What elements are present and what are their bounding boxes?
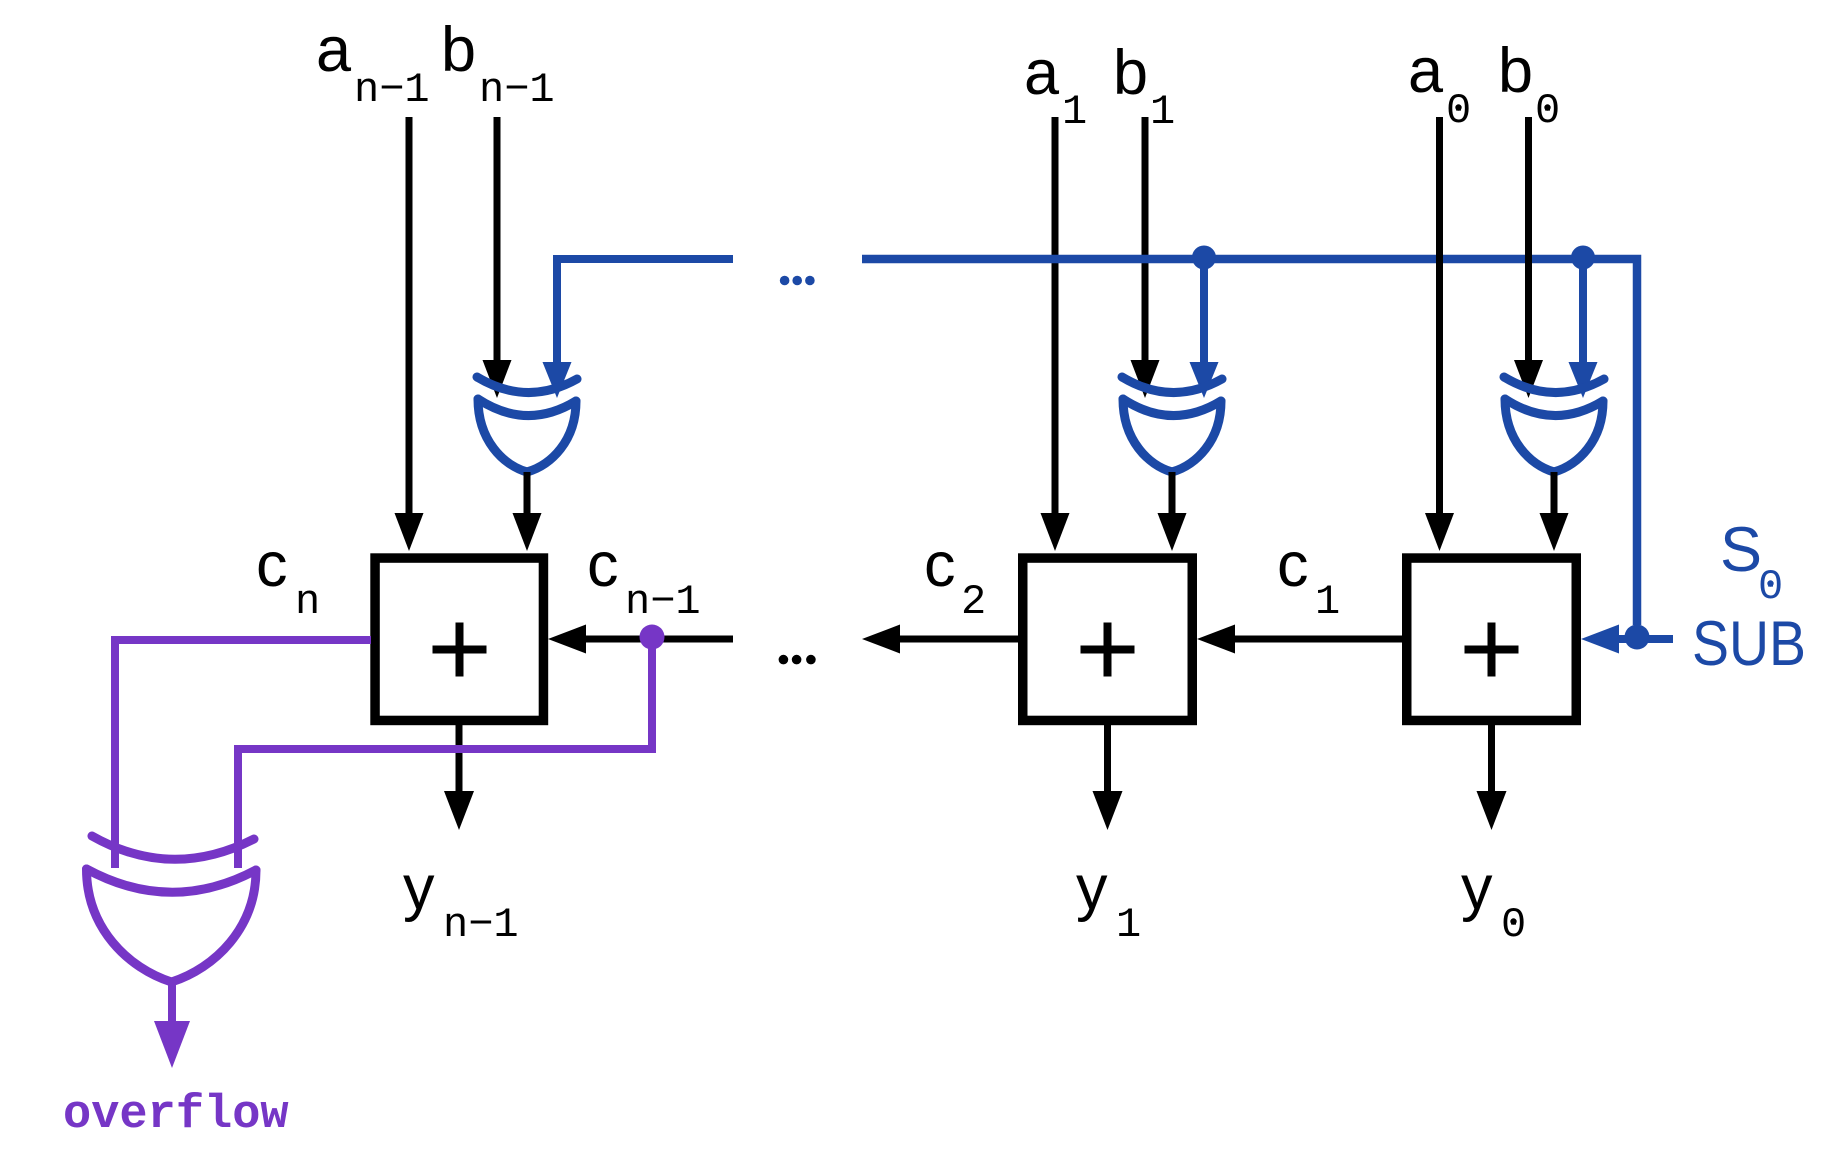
wire sum output FA[n-1] [444, 725, 474, 830]
svg-text:c: c [587, 530, 619, 600]
label SUB [1692, 609, 1806, 679]
wire SUB rail main segment [862, 259, 1637, 625]
svg-text:y: y [1461, 853, 1493, 923]
wire SUB rail left segment to xor B1 [543, 259, 734, 398]
node SUB junction at bit 1 [1192, 246, 1216, 270]
label y[0] [1461, 853, 1526, 949]
svg-text:n−1: n−1 [479, 66, 555, 114]
wire SUB drop to xor B2 [1190, 259, 1219, 398]
plus symbol FA[n-1] [433, 623, 487, 677]
label y[n-1] [403, 853, 519, 949]
svg-text:1: 1 [1150, 88, 1175, 136]
wire SUB drop to xor B3 [1569, 259, 1598, 398]
plus symbol FA1 [1081, 623, 1135, 677]
svg-text:n−1: n−1 [354, 66, 430, 114]
wire carry c[n-1] into FA[n-1] [548, 625, 733, 654]
svg-text:n: n [295, 578, 320, 626]
xor gate B3 [1504, 377, 1604, 472]
svg-text:0: 0 [1501, 901, 1526, 949]
svg-text:b: b [1113, 38, 1148, 108]
wire carry c[1] FA0 to FA1 [1197, 625, 1402, 654]
ellipsis carry chain [779, 655, 816, 665]
svg-text:y: y [1076, 853, 1108, 923]
svg-text:0: 0 [1758, 563, 1783, 611]
svg-text:a: a [316, 15, 352, 85]
wire carry c[2] out of FA1 [862, 625, 1018, 654]
node SUB junction at bit 0 [1571, 246, 1595, 270]
label b[1] [1113, 38, 1175, 136]
svg-text:c: c [256, 530, 288, 600]
svg-text:0: 0 [1446, 87, 1471, 135]
node SUB input junction [1625, 625, 1650, 650]
adder FA0 [1407, 558, 1577, 720]
wire sum output FA1 [1093, 725, 1123, 830]
xor gate B2 [1122, 377, 1222, 472]
svg-text:SUB: SUB [1692, 609, 1806, 679]
label c[n-1] [587, 530, 701, 626]
label c[2] [924, 530, 986, 626]
wire xor B1 output to adder FA[n-1] [513, 472, 542, 551]
adder FA1 [1023, 558, 1193, 720]
wire b[n-1] input [483, 117, 512, 398]
svg-text:b: b [441, 15, 476, 85]
svg-text:1: 1 [1062, 88, 1087, 136]
svg-text:a: a [1408, 36, 1444, 106]
svg-text:b: b [1498, 36, 1533, 106]
wire b[0] input [1514, 117, 1543, 398]
adder FA[n-1] [375, 558, 543, 720]
plus symbol FA0 [1465, 623, 1519, 677]
label overflow [63, 1089, 289, 1142]
svg-text:a: a [1024, 38, 1060, 108]
svg-text:S: S [1720, 515, 1762, 585]
wire b[1] input [1131, 117, 1160, 398]
svg-text:n−1: n−1 [443, 901, 519, 949]
label y[1] [1076, 853, 1141, 949]
wire overflow output [154, 982, 190, 1068]
ellipsis blue rail [780, 276, 815, 286]
svg-text:2: 2 [961, 578, 986, 626]
svg-text:c: c [924, 530, 956, 600]
svg-text:overflow: overflow [63, 1089, 289, 1142]
svg-text:0: 0 [1535, 87, 1560, 135]
wire a[0] input [1425, 117, 1454, 551]
svg-text:n−1: n−1 [625, 578, 701, 626]
label c[n] [256, 530, 320, 626]
svg-text:c: c [1277, 530, 1309, 600]
node c[n-1] junction [640, 625, 665, 650]
label c[1] [1277, 530, 1340, 626]
wire c[n] to overflow xor [115, 640, 371, 868]
wire a[1] input [1041, 117, 1070, 551]
svg-text:1: 1 [1315, 578, 1340, 626]
xor gate B1 [477, 377, 577, 472]
label a[1] [1024, 38, 1087, 136]
label b[n-1] [441, 15, 555, 114]
label S[0] [1720, 515, 1783, 611]
wire xor B2 output to adder FA1 [1158, 472, 1187, 551]
wire a[n-1] input [395, 117, 424, 551]
label a[0] [1408, 36, 1471, 135]
wire sum output FA0 [1477, 725, 1507, 830]
xor gate overflow [87, 836, 257, 982]
wire xor B3 output to adder FA0 [1540, 472, 1569, 551]
wire c[n-1] tap to overflow xor [238, 640, 652, 868]
wire SUB into FA0 carry-in [1581, 625, 1673, 654]
label a[n-1] [316, 15, 430, 114]
label b[0] [1498, 36, 1560, 135]
svg-text:1: 1 [1116, 901, 1141, 949]
svg-text:y: y [403, 853, 435, 923]
